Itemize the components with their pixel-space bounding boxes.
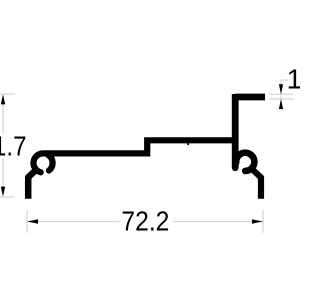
dim 1 top extension line xyxy=(269,93,294,95)
top flange stub xyxy=(235,94,265,101)
left curl tail xyxy=(48,155,53,171)
dim 31.7 up arrow xyxy=(1,94,5,104)
dim 72.2 line right part xyxy=(174,221,264,223)
gasket nub on upper web xyxy=(187,143,189,146)
svg-text:31.7: 31.7 xyxy=(0,131,27,162)
dim 31.7 top tick xyxy=(1,93,16,95)
right screw-port curl xyxy=(236,153,254,171)
riser with hanging tail xyxy=(232,94,239,168)
right diagonal and right leg xyxy=(251,168,261,199)
dim 31.7 bottom tick xyxy=(0,196,14,198)
dim 72.2 left arrow xyxy=(27,219,38,223)
dim 72.2 line left part xyxy=(27,221,120,223)
dim 31.7 stem upper xyxy=(2,104,4,133)
left diagonal and left leg xyxy=(28,170,36,199)
dim 31.7 down arrow xyxy=(1,187,5,197)
riser tail round tip xyxy=(232,165,239,172)
svg-text:72.2: 72.2 xyxy=(121,206,169,237)
dim 1 bottom extension line xyxy=(269,98,294,100)
dim 72.2 right extension line xyxy=(262,210,264,233)
dim 1 stem xyxy=(280,80,282,111)
dim 72.2 right arrow xyxy=(252,219,263,223)
svg-text:1: 1 xyxy=(287,64,300,95)
dim 1 up arrow xyxy=(279,99,283,109)
left screw-port curl, lower web, step, upper web xyxy=(33,140,235,172)
dim 1 down arrow xyxy=(279,84,283,94)
dim 72.2 left extension line xyxy=(26,210,28,233)
dim 1 leader xyxy=(281,79,289,81)
dim 31.7 stem lower xyxy=(2,158,4,187)
